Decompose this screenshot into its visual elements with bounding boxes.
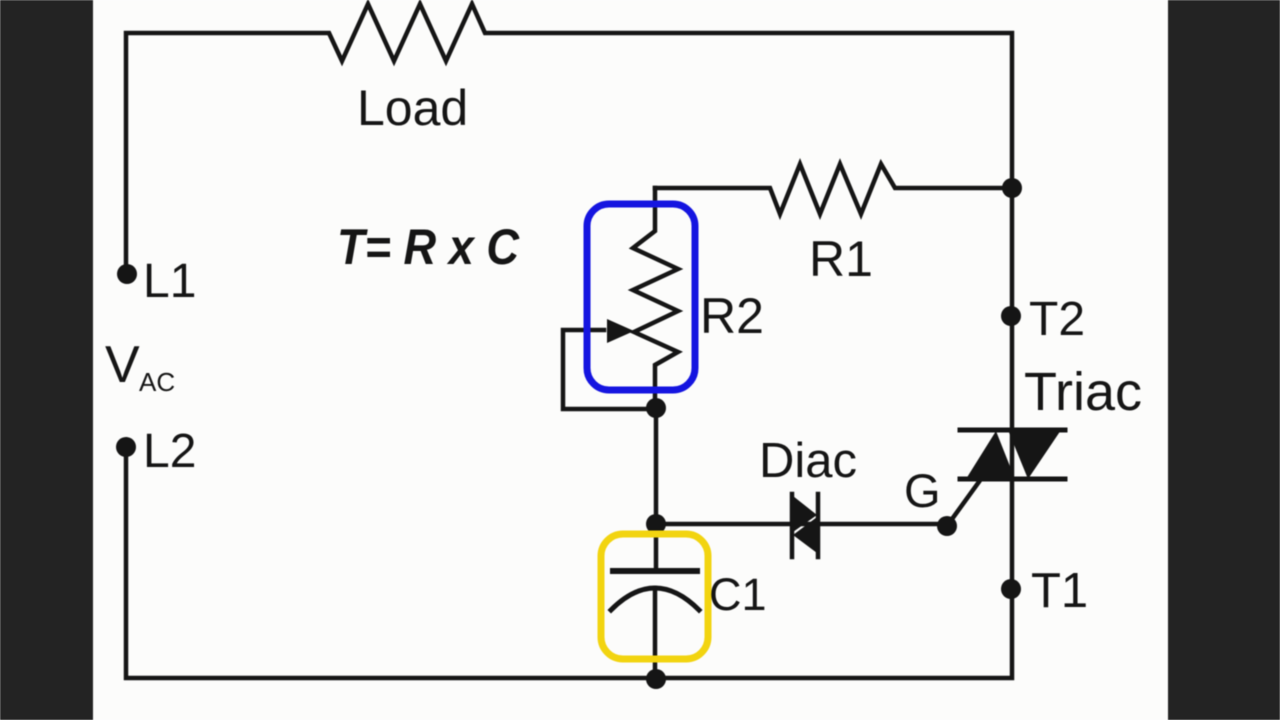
svg-text:V: V: [105, 336, 140, 394]
svg-text:Triac: Triac: [1024, 362, 1142, 422]
svg-text:T= R x C: T= R x C: [337, 219, 520, 275]
svg-text:L1: L1: [143, 255, 196, 308]
svg-text:C1: C1: [709, 569, 767, 620]
svg-text:R2: R2: [700, 288, 764, 344]
svg-text:AC: AC: [139, 367, 175, 397]
svg-text:Load: Load: [357, 80, 468, 136]
svg-text:T1: T1: [1031, 564, 1088, 618]
svg-text:R1: R1: [809, 231, 873, 287]
svg-text:T2: T2: [1029, 293, 1085, 346]
svg-text:Diac: Diac: [759, 434, 857, 488]
svg-text:L2: L2: [143, 425, 196, 478]
svg-text:G: G: [904, 464, 941, 517]
